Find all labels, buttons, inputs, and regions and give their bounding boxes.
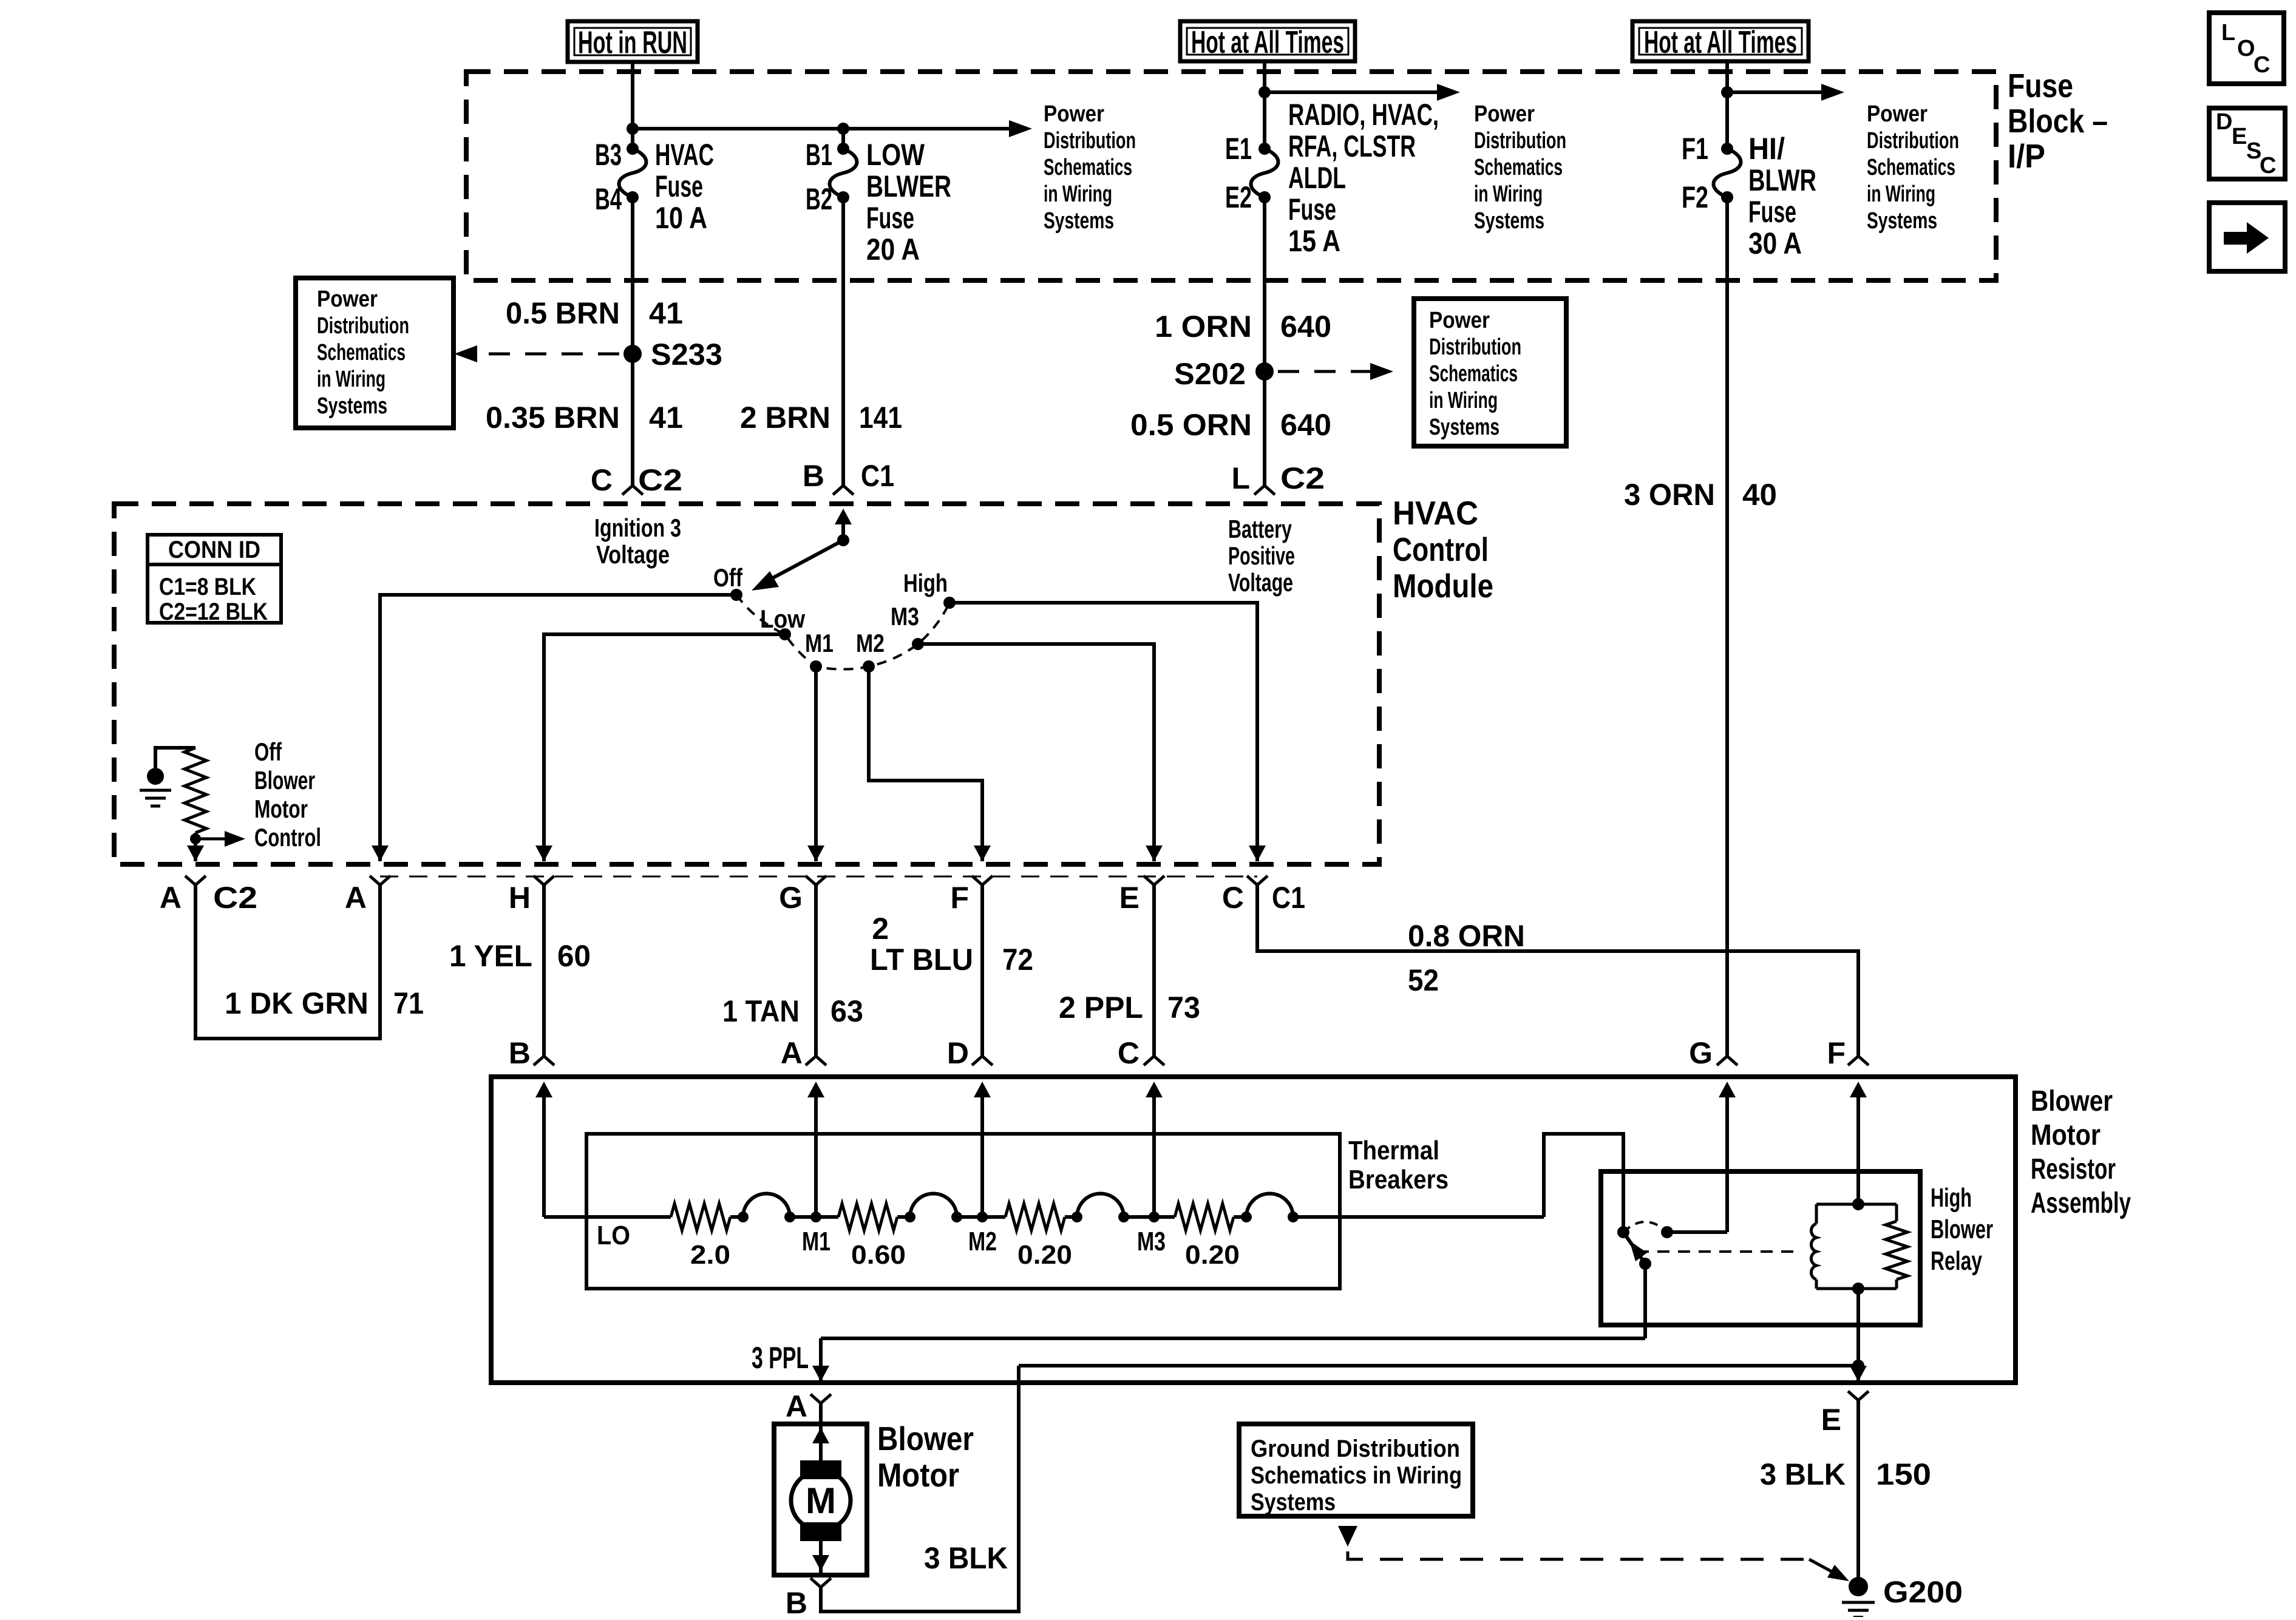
svg-text:Power: Power [317, 286, 378, 312]
svg-text:H: H [509, 881, 531, 915]
svg-text:M: M [806, 1480, 836, 1521]
svg-text:E2: E2 [1225, 180, 1252, 214]
svg-text:C2=12 BLK: C2=12 BLK [159, 598, 268, 625]
svg-text:Distribution: Distribution [1867, 128, 1959, 154]
svg-text:A: A [345, 881, 367, 915]
svg-text:LT BLU: LT BLU [870, 943, 973, 977]
svg-text:Systems: Systems [1251, 1489, 1336, 1516]
svg-text:20 A: 20 A [866, 232, 920, 266]
svg-text:Ground Distribution: Ground Distribution [1251, 1435, 1460, 1462]
svg-text:Hot at All Times: Hot at All Times [1644, 25, 1797, 60]
svg-text:Power: Power [1044, 101, 1104, 127]
svg-text:C1: C1 [1272, 881, 1305, 915]
svg-text:0.20: 0.20 [1185, 1240, 1240, 1270]
svg-text:LO: LO [597, 1221, 630, 1250]
svg-text:I/P: I/P [2008, 137, 2045, 175]
svg-text:B3: B3 [595, 138, 622, 172]
svg-text:A: A [781, 1036, 803, 1070]
svg-text:Low: Low [760, 605, 805, 633]
svg-text:Motor: Motor [877, 1456, 959, 1494]
svg-text:F: F [1827, 1036, 1846, 1070]
svg-text:1 DK GRN: 1 DK GRN [225, 986, 369, 1020]
svg-text:Schematics in Wiring: Schematics in Wiring [1251, 1462, 1462, 1489]
svg-text:High: High [903, 569, 948, 597]
svg-text:G200: G200 [1883, 1575, 1963, 1609]
svg-text:Schematics: Schematics [1867, 155, 1955, 180]
svg-text:Systems: Systems [1474, 208, 1544, 234]
svg-text:O: O [2237, 36, 2255, 61]
svg-text:41: 41 [649, 296, 683, 330]
svg-text:HI/: HI/ [1748, 132, 1785, 166]
svg-text:Distribution: Distribution [1474, 128, 1566, 154]
svg-text:C2: C2 [1280, 461, 1325, 495]
svg-text:2: 2 [872, 912, 889, 946]
svg-text:Distribution: Distribution [1044, 128, 1136, 154]
svg-text:Blower: Blower [1931, 1215, 1993, 1244]
svg-text:Assembly: Assembly [2031, 1187, 2131, 1219]
svg-text:E: E [2232, 124, 2247, 149]
svg-text:Schematics: Schematics [1044, 155, 1132, 180]
svg-text:Blower: Blower [254, 766, 315, 795]
svg-text:0.5 BRN: 0.5 BRN [506, 296, 620, 330]
svg-text:C: C [1118, 1036, 1140, 1070]
svg-text:2.0: 2.0 [690, 1240, 730, 1270]
svg-text:Off: Off [254, 737, 282, 766]
svg-text:E1: E1 [1225, 132, 1252, 166]
svg-text:in Wiring: in Wiring [317, 367, 385, 392]
svg-text:in Wiring: in Wiring [1867, 181, 1935, 207]
svg-text:F1: F1 [1682, 132, 1708, 166]
svg-text:3 PPL: 3 PPL [752, 1341, 809, 1375]
svg-text:Distribution: Distribution [317, 313, 409, 339]
svg-text:0.20: 0.20 [1017, 1240, 1072, 1270]
svg-text:0.60: 0.60 [851, 1240, 906, 1270]
svg-text:C: C [2254, 52, 2270, 78]
svg-text:Schematics: Schematics [1429, 361, 1518, 387]
svg-text:B1: B1 [806, 138, 832, 172]
svg-text:Block –: Block – [2008, 102, 2108, 140]
svg-text:F2: F2 [1682, 180, 1708, 214]
svg-text:Voltage: Voltage [596, 540, 670, 569]
svg-text:Control: Control [1393, 530, 1489, 568]
svg-text:Module: Module [1393, 567, 1493, 605]
svg-text:1 TAN: 1 TAN [722, 994, 800, 1028]
svg-text:S233: S233 [651, 337, 722, 371]
svg-text:Battery: Battery [1228, 515, 1292, 543]
svg-text:Systems: Systems [1429, 415, 1500, 440]
svg-text:73: 73 [1167, 991, 1200, 1025]
svg-text:640: 640 [1280, 310, 1331, 344]
svg-text:Control: Control [254, 823, 321, 852]
svg-text:C: C [1222, 881, 1244, 915]
svg-text:640: 640 [1280, 408, 1331, 442]
svg-text:High: High [1931, 1183, 1972, 1213]
svg-text:S202: S202 [1174, 357, 1246, 391]
svg-text:3 BLK: 3 BLK [924, 1541, 1008, 1575]
svg-text:C2: C2 [213, 881, 257, 915]
svg-text:HVAC: HVAC [655, 138, 714, 172]
svg-text:63: 63 [830, 994, 863, 1028]
svg-text:Positive: Positive [1228, 541, 1295, 570]
svg-text:M2: M2 [856, 629, 885, 657]
svg-text:M3: M3 [891, 602, 919, 631]
svg-text:Thermal: Thermal [1348, 1136, 1439, 1165]
svg-text:72: 72 [1002, 943, 1033, 977]
svg-text:Resistor: Resistor [2031, 1153, 2116, 1185]
svg-text:CONN ID: CONN ID [168, 537, 260, 563]
svg-text:M1: M1 [805, 629, 834, 657]
svg-text:BLWER: BLWER [866, 169, 951, 203]
svg-text:A: A [786, 1389, 807, 1423]
svg-text:Hot in RUN: Hot in RUN [578, 25, 687, 61]
svg-text:ALDL: ALDL [1288, 161, 1346, 195]
svg-text:B2: B2 [806, 182, 832, 216]
svg-text:Fuse: Fuse [1288, 192, 1336, 226]
svg-text:Systems: Systems [1867, 208, 1937, 234]
svg-text:71: 71 [393, 986, 424, 1020]
svg-text:Fuse: Fuse [866, 201, 914, 235]
svg-text:B: B [786, 1586, 807, 1617]
svg-text:M3: M3 [1137, 1227, 1166, 1256]
svg-text:L: L [1231, 461, 1250, 495]
svg-text:LOW: LOW [866, 138, 925, 172]
svg-text:E: E [1821, 1403, 1841, 1437]
svg-text:15 A: 15 A [1288, 224, 1340, 258]
svg-text:M2: M2 [968, 1227, 997, 1256]
svg-text:Power: Power [1867, 101, 1927, 127]
svg-text:10 A: 10 A [655, 201, 707, 235]
svg-text:Distribution: Distribution [1429, 334, 1521, 360]
svg-text:1 ORN: 1 ORN [1155, 310, 1252, 344]
svg-text:40: 40 [1742, 478, 1777, 512]
svg-text:D: D [2216, 109, 2232, 135]
svg-text:141: 141 [859, 401, 902, 435]
svg-text:M1: M1 [802, 1227, 830, 1256]
svg-text:Motor: Motor [2031, 1119, 2101, 1151]
svg-text:41: 41 [649, 401, 683, 435]
svg-text:Systems: Systems [317, 393, 387, 419]
svg-text:Fuse: Fuse [2008, 67, 2073, 104]
svg-text:Fuse: Fuse [655, 169, 703, 203]
svg-text:0.5 ORN: 0.5 ORN [1130, 408, 1252, 442]
svg-text:in Wiring: in Wiring [1474, 181, 1543, 207]
svg-text:Motor: Motor [254, 795, 308, 823]
svg-text:BLWR: BLWR [1748, 163, 1816, 197]
svg-text:C1=8 BLK: C1=8 BLK [159, 574, 256, 600]
svg-text:HVAC: HVAC [1393, 494, 1478, 532]
svg-text:Ignition 3: Ignition 3 [594, 513, 681, 542]
svg-text:B: B [509, 1036, 531, 1070]
svg-text:B4: B4 [595, 182, 622, 216]
svg-text:Power: Power [1429, 308, 1490, 333]
svg-text:0.8 ORN: 0.8 ORN [1408, 919, 1525, 953]
svg-text:RADIO, HVAC,: RADIO, HVAC, [1288, 98, 1439, 132]
svg-text:0.35 BRN: 0.35 BRN [486, 401, 620, 435]
svg-text:Relay: Relay [1931, 1246, 1982, 1276]
svg-text:Schematics: Schematics [1474, 155, 1563, 180]
svg-text:Blower: Blower [877, 1420, 974, 1457]
svg-text:52: 52 [1408, 963, 1439, 997]
svg-text:G: G [779, 881, 803, 915]
svg-text:Blower: Blower [2031, 1085, 2113, 1117]
svg-text:60: 60 [557, 939, 591, 973]
svg-text:Systems: Systems [1044, 208, 1114, 234]
svg-text:D: D [947, 1036, 969, 1070]
svg-text:E: E [1119, 881, 1140, 915]
svg-text:Fuse: Fuse [1748, 195, 1796, 229]
svg-text:L: L [2221, 20, 2235, 46]
svg-text:C: C [591, 463, 613, 497]
svg-text:Hot at All Times: Hot at All Times [1191, 25, 1344, 60]
svg-text:Off: Off [713, 563, 743, 592]
svg-text:Voltage: Voltage [1228, 568, 1293, 597]
svg-text:G: G [1689, 1036, 1713, 1070]
svg-text:3 ORN: 3 ORN [1624, 478, 1715, 512]
svg-text:C1: C1 [861, 459, 894, 493]
svg-text:in Wiring: in Wiring [1429, 388, 1498, 413]
svg-text:2 BRN: 2 BRN [740, 401, 830, 435]
svg-text:in Wiring: in Wiring [1044, 181, 1112, 207]
svg-text:1 YEL: 1 YEL [449, 939, 532, 973]
svg-text:F: F [950, 881, 969, 915]
svg-text:Power: Power [1474, 101, 1535, 127]
svg-text:C: C [2260, 153, 2276, 178]
svg-text:B: B [803, 459, 824, 493]
svg-text:30 A: 30 A [1748, 226, 1802, 260]
svg-text:3 BLK: 3 BLK [1760, 1457, 1846, 1491]
svg-text:A: A [160, 881, 182, 915]
svg-text:150: 150 [1876, 1457, 1931, 1491]
svg-text:RFA, CLSTR: RFA, CLSTR [1288, 129, 1416, 163]
svg-text:Schematics: Schematics [317, 340, 406, 365]
svg-text:2 PPL: 2 PPL [1059, 991, 1143, 1025]
svg-text:Breakers: Breakers [1348, 1165, 1449, 1195]
svg-text:C2: C2 [638, 463, 682, 497]
